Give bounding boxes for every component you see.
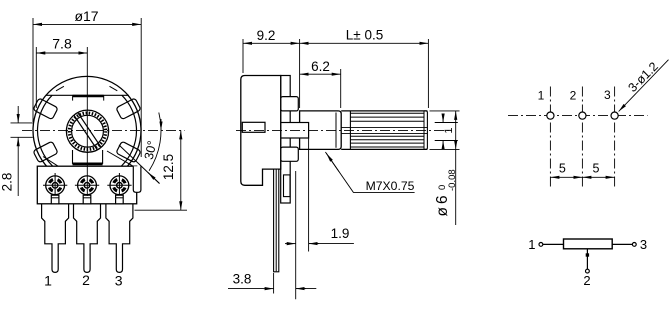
svg-text:3: 3	[115, 273, 123, 289]
svg-text:7.8: 7.8	[52, 36, 72, 52]
svg-text:2: 2	[82, 272, 90, 288]
svg-text:1: 1	[44, 273, 52, 289]
svg-text:5: 5	[559, 162, 566, 176]
svg-text:L± 0.5: L± 0.5	[346, 27, 383, 42]
svg-text:12.5: 12.5	[161, 154, 176, 180]
svg-text:M7X0.75: M7X0.75	[366, 179, 415, 193]
svg-text:ø17: ø17	[74, 8, 98, 24]
svg-text:5: 5	[593, 162, 600, 176]
svg-text:2: 2	[583, 273, 590, 288]
svg-text:6.2: 6.2	[311, 59, 330, 74]
svg-text:3: 3	[604, 88, 611, 102]
svg-text:ø6: ø6	[434, 192, 451, 216]
svg-text:2: 2	[570, 88, 577, 102]
svg-text:1: 1	[538, 88, 545, 102]
svg-text:1: 1	[528, 237, 535, 252]
svg-text:9.2: 9.2	[257, 28, 276, 43]
svg-text:2.8: 2.8	[0, 173, 15, 192]
svg-text:1.9: 1.9	[331, 226, 350, 241]
svg-text:3: 3	[640, 237, 647, 252]
svg-text:3.8: 3.8	[233, 271, 252, 286]
svg-text:-0.08: -0.08	[447, 169, 458, 191]
